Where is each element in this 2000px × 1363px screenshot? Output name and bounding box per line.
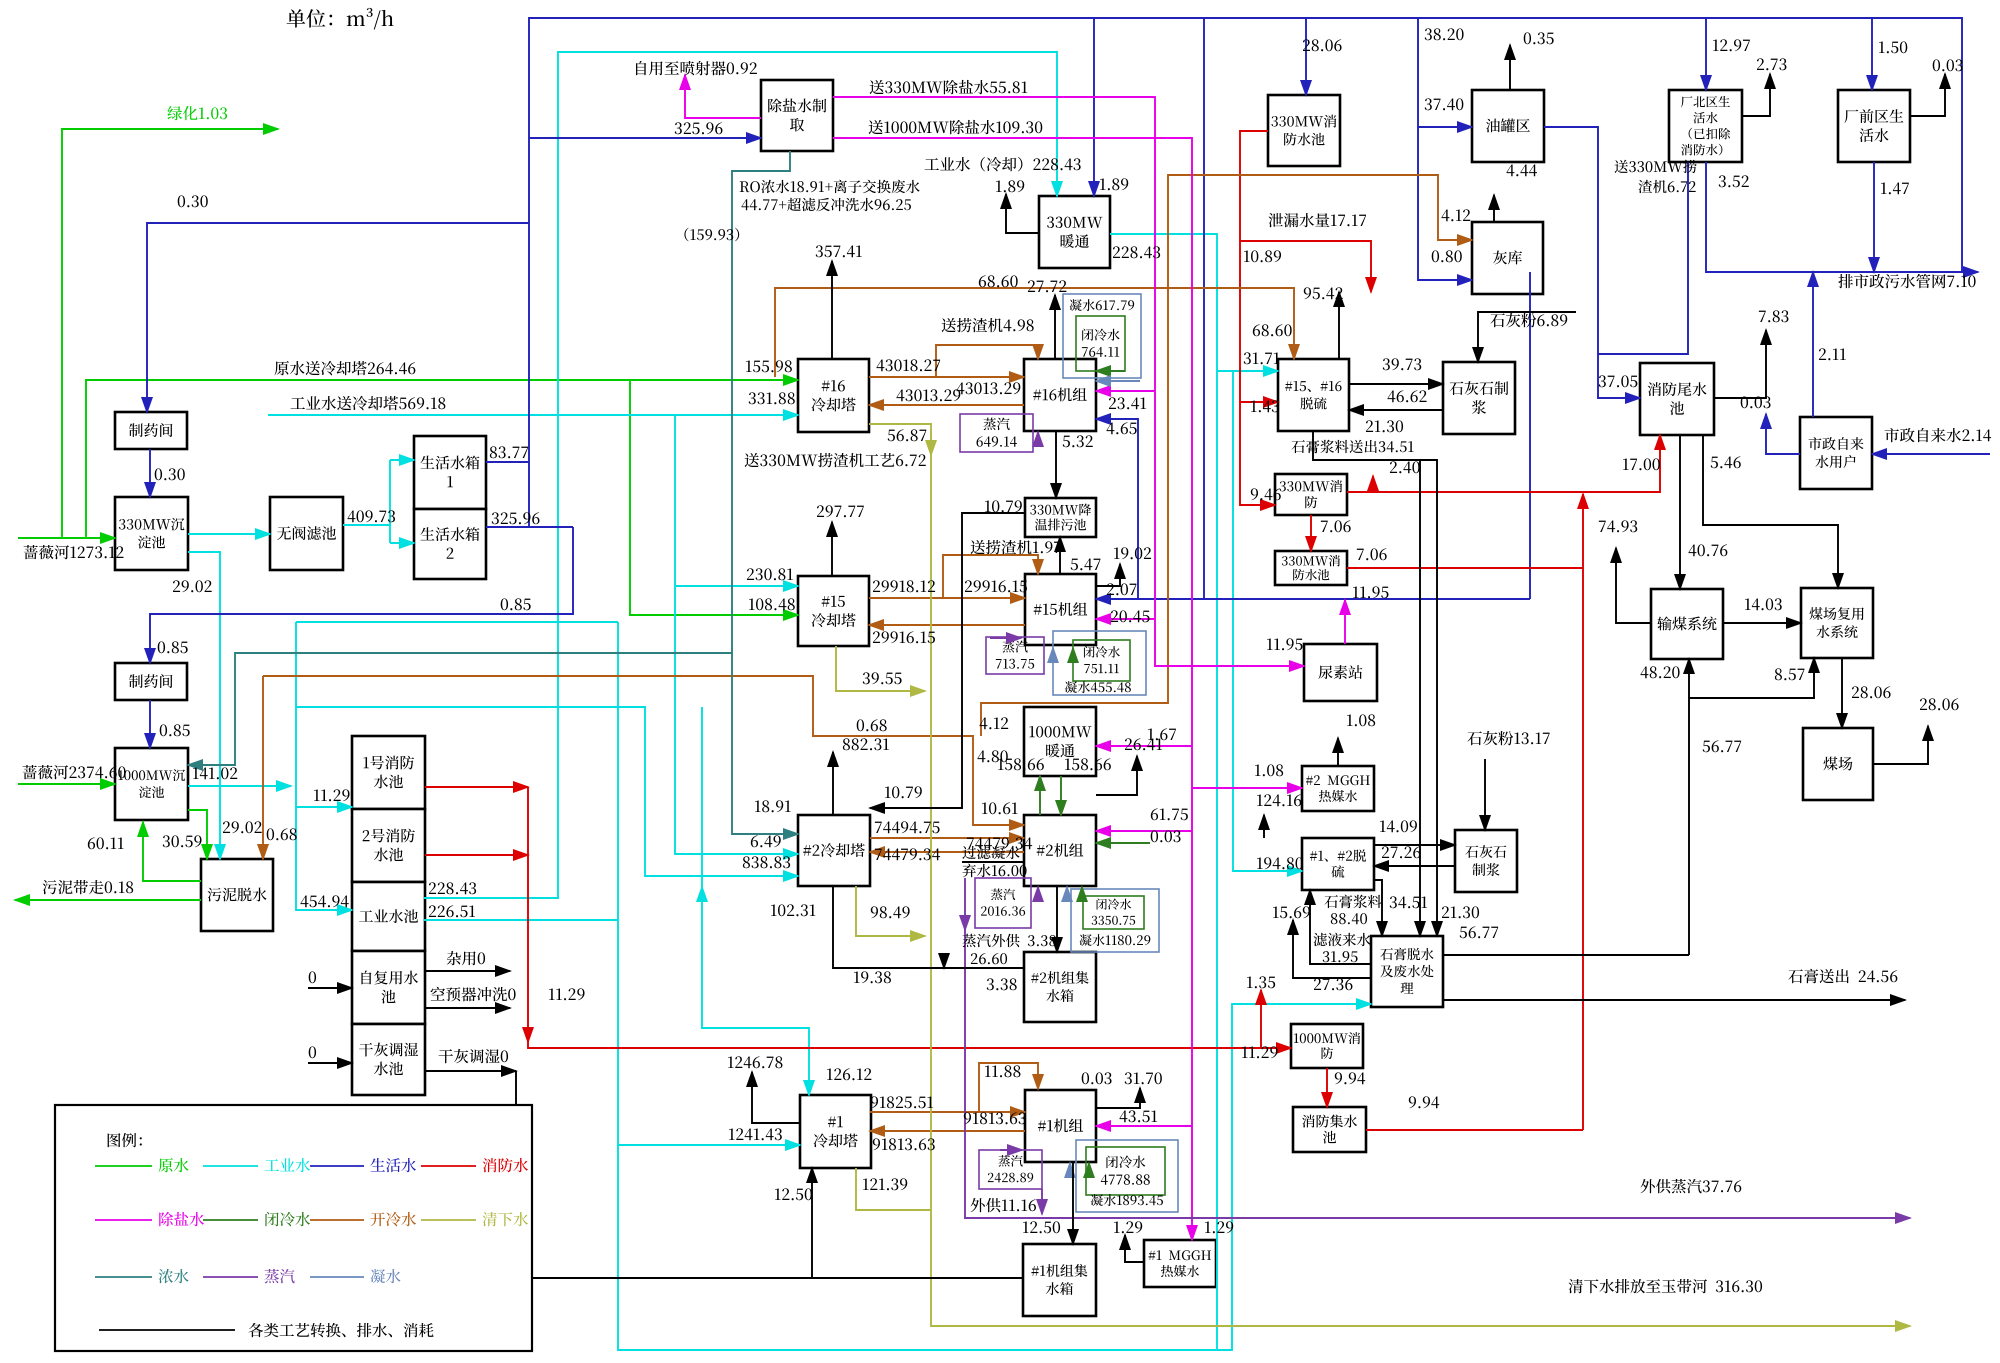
legend 消防水 xyxy=(421,1165,476,1167)
wire 1.29 up #1MGGH xyxy=(1125,1235,1144,1262)
box 消防尾水池 xyxy=(1640,363,1714,435)
label box 凝水455.48 #15 xyxy=(1053,631,1146,695)
label box 凝水1893.45 #1 xyxy=(1076,1140,1178,1212)
box 1000MW暖通 xyxy=(1024,707,1096,776)
wire 蔷薇河2374.60 into 1000MW沉淀池 xyxy=(18,783,115,785)
box 330MW暖通 xyxy=(1039,196,1110,268)
wire 9.94 → 消防集水池 xyxy=(1326,1068,1328,1107)
wire → 生活水箱2 xyxy=(390,542,414,544)
wire 68.60 → #15#16脱硫 xyxy=(775,288,1294,377)
wire 生活水箱分支 xyxy=(389,460,391,543)
box 石灰石制浆(上) xyxy=(1443,362,1515,434)
wire 0 → 干灰调湿水池 xyxy=(308,1062,352,1064)
wire 石膏送出24.56 xyxy=(1443,999,1905,1001)
box #1机组集水箱 xyxy=(1023,1244,1096,1316)
wire 330MW沉淀池 → 无阀滤池 xyxy=(188,533,270,535)
box 330MW消防 xyxy=(1275,474,1347,515)
label 蔷薇河2374.60 xyxy=(23,765,126,779)
wire 37.40 → 油罐区 xyxy=(1418,126,1472,128)
box #1机组 xyxy=(1025,1090,1096,1162)
wire 3.52 → 排市政污水管网7.10 xyxy=(1706,162,1978,272)
wire 226.51 xyxy=(424,919,618,921)
wire 357.41 蒸发 xyxy=(831,261,833,359)
wire 102.31 up into #2冷却塔 xyxy=(701,887,703,898)
wire 消防回水 up xyxy=(1582,494,1584,1130)
wire 开冷水0.68/10.61 → #2机组 xyxy=(263,676,1024,825)
wire 5.47 → 降温排污池 xyxy=(1059,537,1061,574)
wire 无阀滤池出水409.73 xyxy=(343,524,390,526)
wire 闭冷水 → #1机组 xyxy=(1088,1163,1090,1174)
wire 工业水 → #2冷却塔 6.49 xyxy=(675,415,798,854)
box 输煤系统 xyxy=(1651,589,1723,659)
wire 1.47 xyxy=(1873,162,1875,272)
wire 30.59 into 污泥脱水 xyxy=(188,810,207,859)
wire 17.00 → 消防尾水池 xyxy=(1347,435,1660,492)
wire 2.73 up xyxy=(1742,74,1770,116)
box #1#2脱硫 xyxy=(1302,838,1374,890)
wire 蔷薇河1273.12 into 330MW沉淀池 xyxy=(18,537,115,539)
box 尿素站 xyxy=(1304,644,1377,701)
wire 2号消防水池出水 xyxy=(425,854,528,856)
wire 297.77 蒸发 xyxy=(831,522,833,576)
box 石膏脱水及废水处理 xyxy=(1371,936,1443,1007)
wire 泄漏水量17.17 xyxy=(1240,241,1371,292)
wire 29916.15 → #15冷却塔 xyxy=(869,624,1025,626)
box 制药间(上) xyxy=(115,412,187,449)
wire 10.79 降温排污池 → #2冷却塔 xyxy=(870,513,1025,808)
wire 自用至喷射器0.92 xyxy=(685,75,761,118)
wire 0.85 制药间→1000MW沉淀池 xyxy=(149,700,151,748)
wire 28.06 → 330MW消防水池 xyxy=(1305,18,1307,95)
wire 2.07 → #15机组 xyxy=(1096,598,1530,600)
wire 15.69 up xyxy=(1293,920,1371,978)
box 1000MW消防 xyxy=(1291,1024,1363,1068)
wire 生活水总管 xyxy=(529,18,1962,527)
wire 原水 → #15冷却塔 108.48 xyxy=(630,380,798,615)
label box 凝水617.79 #16 xyxy=(1063,294,1141,378)
label 送330MW除盐水 xyxy=(870,80,1028,94)
wire 石膏浆料送出34.51/21.30 xyxy=(1313,431,1437,936)
wire 工业水 → #1冷却塔 126.12 xyxy=(702,707,809,1095)
wire 0.68 → 污泥脱水 xyxy=(262,676,264,859)
legend 清下水 xyxy=(421,1219,476,1221)
wire 28.06 → 煤场 xyxy=(1841,658,1843,728)
wire 清下水排放至玉带河316.30 xyxy=(931,1210,1910,1326)
wire 石灰粉6.89 xyxy=(1478,312,1576,362)
wire 1246.78 蒸发 xyxy=(752,1072,800,1123)
wire 27.72 up xyxy=(1054,295,1056,359)
wire 凝水 → #16机组 xyxy=(1096,380,1140,382)
wire 生活水箱2出水325.96 xyxy=(486,526,573,528)
box #15机组 xyxy=(1025,574,1096,645)
legend 除盐水 xyxy=(95,1219,152,1221)
box 煤场复用水系统 xyxy=(1801,588,1873,658)
box 自复用水池 xyxy=(352,951,425,1024)
wire 1.50 → 厂前区生活水 xyxy=(1871,18,1873,90)
wire 19.38 → 集水箱 xyxy=(833,886,1024,968)
box 2号消防水池 xyxy=(352,809,425,882)
legend title xyxy=(108,1133,142,1147)
wire 送捞渣机4.98 xyxy=(936,345,1038,377)
box 330MW消防水池(上) xyxy=(1268,95,1340,166)
wire 清下水母管 xyxy=(930,455,932,1210)
wire 0.30 制药间→330MW沉淀池 xyxy=(149,449,151,497)
wire 31.71 → #15#16脱硫 xyxy=(1217,370,1278,372)
label box 蒸汽713.75 #15 xyxy=(986,637,1044,674)
wire 12.97 → 厂北区生活水 xyxy=(1705,18,1707,90)
wire 43018.27/43013.29 → #16机组 xyxy=(869,376,1024,378)
wire 74479.34 → #2冷却塔 xyxy=(870,851,1024,853)
wire 330MW暖通排水228.43 xyxy=(1110,234,1217,1350)
box 330MW沉淀池 xyxy=(115,497,188,570)
wire 1.67 → 1000MW暖通 xyxy=(1096,745,1192,747)
wire 60.11 up into 1000MW沉淀池 xyxy=(143,822,201,881)
wire 56.87 arrow xyxy=(930,441,932,455)
wire 1.35 up xyxy=(1260,990,1262,1048)
box 330MW消防水池(中) xyxy=(1275,551,1347,585)
label 绿化1.03 xyxy=(167,106,227,120)
wire 31.70 up xyxy=(1096,1088,1140,1108)
wire 121.39 xyxy=(856,1168,931,1210)
wire 滤液来水31.95 xyxy=(1310,890,1371,964)
wire 1000MW沉淀池出水 xyxy=(188,785,291,787)
label box 蒸汽2428.89 #1 xyxy=(979,1150,1042,1189)
wire 12.50 → #1冷却塔 xyxy=(811,1168,813,1278)
wire 市政自来水2.14 xyxy=(1872,453,1990,455)
wire 1.08 up #2MGGH xyxy=(1337,738,1339,766)
wire 集水箱连线 xyxy=(516,1071,1023,1278)
label box 闭冷水764.11 #16 xyxy=(1076,316,1125,371)
wire 送1000MW除盐水109.30 → #1MGGH 1.29 xyxy=(833,138,1192,1240)
wire 325.96 → 除盐水制取 xyxy=(529,137,761,139)
box 煤场 xyxy=(1803,728,1873,800)
legend box 图例 xyxy=(55,1105,532,1351)
legend 浓水 xyxy=(95,1276,152,1278)
wire 1.89 → 330MW暖通 xyxy=(1093,18,1095,196)
wire 1.08 → #2MGGH xyxy=(1192,787,1302,789)
wire 91825.51/91813.63 → #1机组 xyxy=(870,1111,1025,1113)
wire 7.06 → 330MW消防水池 xyxy=(1310,515,1312,551)
wire 生活水支管 xyxy=(1203,18,1205,599)
box 厂前区生活水 xyxy=(1838,90,1910,162)
wire 工业水(冷却)228.43 → 330MW暖通 xyxy=(424,52,1057,898)
wire 40.76 → 输煤系统 xyxy=(1679,435,1681,589)
wire 送330MW捞渣机6.72 xyxy=(1598,162,1688,354)
wire → 生活水箱1 xyxy=(390,459,414,461)
wire 蒸汽 → #15机组 xyxy=(990,637,1021,639)
wire 消防水 10.89/9.46 → 330MW消防 xyxy=(1240,131,1275,505)
wire 0 → 自复用水池 xyxy=(308,987,352,989)
wire 158.66 up → 1000MW暖通 xyxy=(1039,776,1041,815)
wire 除盐水 → #16机组 xyxy=(1096,390,1155,392)
wire 工业水送冷却塔569.18 → #16冷却塔 331.88 xyxy=(268,414,798,416)
box 1号消防水池 xyxy=(352,736,425,809)
wire 26.41 up xyxy=(1096,756,1137,795)
box 干灰调湿水池 xyxy=(352,1024,425,1095)
wire 8.57 → 煤场复用水系统 xyxy=(1689,658,1814,698)
wire 蒸汽 → #1机组 xyxy=(1000,1149,1022,1151)
legend 各类工艺转换排水消耗 xyxy=(99,1329,235,1331)
wire 61.75 → #2机组 xyxy=(1096,830,1192,832)
label 原水送冷却塔 xyxy=(275,361,416,375)
wire 4.44 up xyxy=(1493,195,1495,222)
wire 7.06 → xyxy=(1347,567,1583,569)
box 厂北区生活水 xyxy=(1669,90,1742,162)
wire 凝水 → #2机组 xyxy=(1066,887,1068,898)
wire 43013.29 → #16冷却塔 xyxy=(869,404,1024,406)
wire 39.73 xyxy=(1349,383,1443,385)
wire 74.93 up xyxy=(1616,548,1651,623)
wire 石膏浆料88.40 xyxy=(1374,880,1382,936)
wire 凝水 → #1机组 xyxy=(1069,1163,1071,1174)
box #2冷却塔 xyxy=(798,815,870,886)
legend 闭冷水 xyxy=(203,1219,258,1221)
wire 1.89 排放 xyxy=(1006,194,1039,233)
wire 送捞渣机1.97 xyxy=(943,555,1038,598)
legend 凝水 xyxy=(310,1276,364,1278)
wire 56.77 xyxy=(1443,954,1689,956)
wire 工业水 → #15冷却塔 230.81 xyxy=(675,585,798,587)
wire 外供11.16 xyxy=(1041,1189,1043,1214)
wire 开冷水4.12 → 灰库 xyxy=(981,175,1472,736)
label box 蒸汽2016.36 #2 xyxy=(975,878,1031,928)
wire 5.32 → 降温排污池 xyxy=(1055,431,1057,498)
wire 凝水 → #15机组 xyxy=(1052,648,1054,662)
wire 29.02 → 污泥脱水 xyxy=(188,552,220,859)
label 送1000MW除盐水 xyxy=(869,120,1043,134)
wire 14.09 xyxy=(1374,844,1455,846)
wire 0.03 up xyxy=(1766,414,1800,454)
wire 11.29 → 1000MW消防 xyxy=(528,787,1291,1048)
wire 2.11 up xyxy=(1812,272,1814,417)
box #15#16脱硫 xyxy=(1278,359,1349,431)
wire 43.51 → #1机组 xyxy=(1096,1125,1192,1127)
label 自用至喷射器0.92 xyxy=(636,61,757,75)
wire 46.62 xyxy=(1349,409,1443,411)
box 制药间(下) xyxy=(115,663,187,700)
wire 14.03 xyxy=(1723,622,1801,624)
wire 838.83 → #2冷却塔 xyxy=(296,707,798,876)
wire RO浓水 18.91 → #2冷却塔 xyxy=(732,151,798,834)
wire 98.49 xyxy=(856,886,925,936)
wire 过滤凝水弃水16.00 xyxy=(962,861,1024,863)
legend 工业水 xyxy=(203,1165,258,1167)
wire 28.06 up xyxy=(1873,726,1928,764)
wire 绿化1.03 xyxy=(62,129,278,538)
box #1MGGH热媒水 xyxy=(1144,1240,1216,1287)
title 单位 m3/h xyxy=(287,8,394,30)
wire 38.20/0.80 → 灰库 xyxy=(1418,18,1472,280)
wire 0.03 → #2机组 xyxy=(1096,842,1150,844)
wire 39.55 xyxy=(836,646,925,691)
wire 19.02 up xyxy=(1096,564,1120,586)
wire 蒸汽 → #16机组 xyxy=(1033,432,1038,445)
wire 124.16 up xyxy=(1263,815,1265,838)
wire 干灰调湿0 xyxy=(424,1070,516,1072)
label box 凝水1180.29 #2 xyxy=(1071,889,1159,952)
wire 杂用0 xyxy=(424,970,510,972)
label box 闭冷水3350.75 #2 xyxy=(1083,896,1144,929)
box #1冷却塔 xyxy=(800,1095,871,1168)
wire 闭冷水 → #16机组 xyxy=(1096,370,1125,372)
label 污泥带走0.18 xyxy=(43,880,134,894)
wire 27.26 xyxy=(1374,865,1455,867)
wire 0.03 up xyxy=(1910,74,1945,116)
legend 开冷水 xyxy=(310,1219,364,1221)
wire 11.95 up xyxy=(1344,600,1346,644)
legend 生活水 xyxy=(310,1165,364,1167)
box #15冷却塔 xyxy=(798,576,869,646)
box 生活水箱1 xyxy=(414,436,486,509)
wire 生活水箱1出水83.77 xyxy=(486,461,529,463)
wire 浓水141.02 → 1000MW沉淀池 xyxy=(188,653,732,765)
wire 95.42 up xyxy=(1338,292,1340,359)
wire 11.88 xyxy=(979,1063,1038,1112)
wire 1.43 → 脱硫 xyxy=(1240,401,1278,403)
box #2MGGH热媒水 xyxy=(1302,766,1374,811)
wire 1241.43 → #1冷却塔 xyxy=(618,1144,800,1146)
wire 882.31 蒸发 xyxy=(832,752,834,815)
wire 油罐区→消防尾水池 37.05 xyxy=(1544,127,1640,398)
wire 5.46 → 煤场复用水系统 xyxy=(1703,435,1838,588)
wire 生活水回水 xyxy=(1529,272,1531,599)
wire 石灰粉13.17 xyxy=(1484,759,1486,830)
wire 34.51 → 石膏脱水 xyxy=(1419,460,1421,936)
wire 消防水 down arrow xyxy=(527,1028,529,1042)
wire 闭冷水 → #15机组 xyxy=(1072,648,1074,662)
wire 0.85 → 制药间(下) xyxy=(150,527,573,663)
wire 194.80 → #1#2脱硫 xyxy=(1233,371,1302,871)
wire 工业水 → 石膏脱水 27.36 xyxy=(618,622,1371,1350)
wire 蒸汽 → #2机组 xyxy=(1037,887,1039,898)
wire 污泥带走0.18 xyxy=(15,899,201,901)
legend 蒸汽 xyxy=(203,1276,258,1278)
box 市政自来水用户 xyxy=(1800,417,1872,489)
box 除盐水制取 xyxy=(761,80,833,151)
wire 91813.63 → #1冷却塔 xyxy=(870,1130,1025,1132)
wire 排水 down arrow xyxy=(943,954,945,968)
wire 工业水母管 xyxy=(296,621,618,623)
wire 9.94 → xyxy=(1366,1129,1583,1131)
label box 闭冷水4778.88 #1 xyxy=(1086,1147,1165,1195)
wire 29918.12/29916.15 → #15机组 xyxy=(869,597,1025,599)
wire 48.20 → 输煤系统 xyxy=(1688,659,1690,955)
box 无阀滤池 xyxy=(270,497,343,570)
wire 74494.75/74479.34 → #2机组 xyxy=(870,837,1024,839)
wire 0.35 up xyxy=(1509,45,1511,90)
wire 12.50 → #1机组集水箱 xyxy=(1072,1162,1074,1244)
label 工业水送冷却塔 xyxy=(291,396,446,410)
box 消防集水池 xyxy=(1293,1107,1366,1152)
wire 23.41/4.65 → #16机组 xyxy=(1096,419,1138,599)
box #2机组 xyxy=(1024,815,1096,886)
box 污泥脱水 xyxy=(201,859,273,931)
label box 蒸汽649.14 #16 xyxy=(960,414,1033,452)
box #16机组 xyxy=(1024,359,1096,431)
wire 闭冷水 → #2机组 xyxy=(1081,887,1083,898)
wire 2.40 up xyxy=(1372,476,1374,492)
box #2机组集水箱 xyxy=(1024,952,1096,1022)
wire 20.45 → #15机组 xyxy=(1096,618,1155,620)
label box 闭冷水751.11 #15 xyxy=(1073,640,1130,681)
wire 158.66 down → #2机组 xyxy=(1060,776,1062,815)
box 油罐区 xyxy=(1472,90,1544,162)
box 330MW降温排污池 xyxy=(1025,498,1096,537)
wire 3.38 → #2机组集水箱 xyxy=(1056,886,1058,952)
wire 送330MW除盐水55.81 → 尿素站 11.95 xyxy=(833,97,1304,666)
box 石灰石制浆(下) xyxy=(1455,830,1517,892)
box 1000MW沉淀池 xyxy=(115,748,188,820)
wire 0.30 → 制药间 xyxy=(147,223,529,412)
wire 56.87 起点 xyxy=(869,424,931,441)
wire 工业水 454.94 → 工业水池 xyxy=(296,622,352,910)
legend 原水 xyxy=(95,1165,152,1167)
box 灰库 xyxy=(1472,222,1543,294)
box 工业水池 xyxy=(352,882,425,951)
wire 原水送冷却塔264.46 → #16冷却塔 155.98 xyxy=(86,380,798,538)
wire 7.83 up xyxy=(1714,330,1766,398)
wire 蒸汽外供26.60 down xyxy=(964,916,966,930)
box #16冷却塔 xyxy=(798,359,869,432)
wire 外供蒸汽37.76 xyxy=(965,878,1910,1218)
wire 1号消防水池出水 xyxy=(425,786,528,788)
label 蔷薇河1273.12 xyxy=(24,545,124,559)
box 生活水箱2 xyxy=(414,509,486,579)
wire 空预器冲洗0 xyxy=(424,1007,510,1009)
wire 工业水 11.29 → 消防水池 xyxy=(296,806,352,808)
